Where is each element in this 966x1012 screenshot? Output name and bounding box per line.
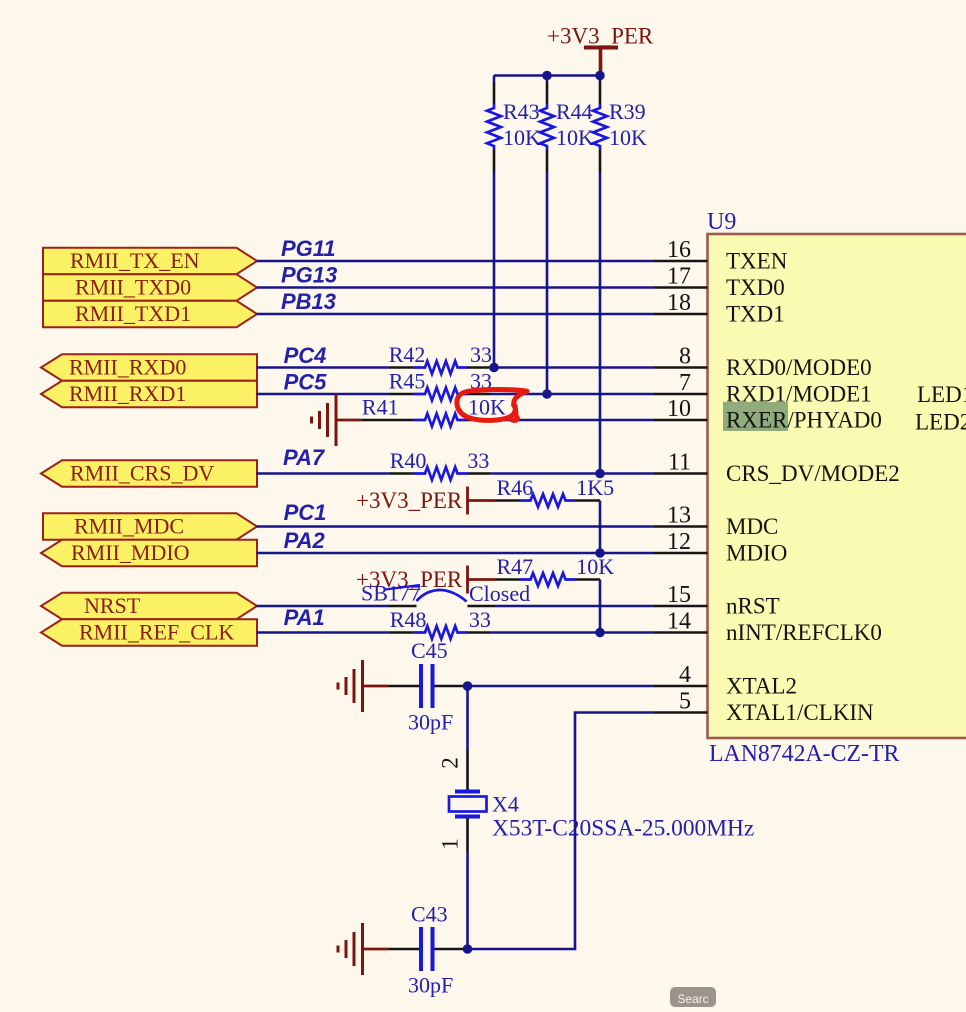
port RMII_TXD1 [43, 301, 257, 328]
svg-text:4: 4 [679, 662, 691, 688]
junction R43/RXD0 [489, 363, 499, 373]
power lead to R46 [468, 499, 496, 502]
svg-text:R44: R44 [556, 99, 593, 124]
wire net PA7 left [257, 472, 391, 475]
resistor R46 (1K5) [519, 494, 575, 507]
svg-text:30pF: 30pF [408, 973, 453, 998]
port RMII_TXD0 [43, 274, 257, 301]
solder bridge SB177 (closed) arc [417, 590, 467, 602]
power symbol +3V3_PER (at R46) [356, 487, 468, 515]
resistor R48 (33) [414, 626, 468, 639]
wire net PB13 (TXD1) [257, 313, 655, 316]
pin 8 RXD0/MODE0 lead [654, 366, 708, 369]
wire NRST to pin 15 [495, 605, 654, 608]
svg-text:2: 2 [437, 757, 462, 769]
port RMII_MDC [43, 513, 257, 540]
junction rail/+3V3_PER stem [595, 71, 605, 81]
wire net PC5 left [257, 393, 391, 396]
R40 left lead [390, 472, 414, 475]
R45 right lead [467, 393, 490, 396]
svg-text:7: 7 [679, 370, 691, 396]
svg-text:15: 15 [667, 582, 691, 608]
pin 13 MDC lead [654, 525, 708, 528]
port RMII_REF_CLK [41, 619, 257, 646]
svg-text:RMII_TXD0: RMII_TXD0 [75, 275, 191, 300]
crystal X4 [455, 792, 480, 817]
R43 bottom lead [493, 150, 496, 172]
R48 right lead [467, 631, 490, 634]
svg-text:17: 17 [667, 264, 691, 290]
svg-text:10K: 10K [468, 395, 506, 420]
svg-text:TXD0: TXD0 [726, 275, 785, 300]
svg-text:Closed: Closed [469, 581, 530, 606]
svg-text:RXD1/MODE1: RXD1/MODE1 [726, 382, 872, 407]
pin 11 CRS_DV/MODE2 lead [654, 472, 708, 475]
pin 18 TXD1 lead [654, 313, 708, 316]
svg-text:nINT/REFCLK0: nINT/REFCLK0 [726, 620, 882, 645]
svg-text:U9: U9 [707, 209, 736, 235]
svg-text:LED2: LED2 [915, 409, 966, 434]
svg-text:10K: 10K [503, 125, 541, 150]
red annotation circle around R41 value 10K [457, 390, 527, 421]
R42 left lead [390, 366, 414, 369]
wire net PA1 left [257, 631, 391, 634]
junction R46/MDIO [595, 548, 605, 558]
pin 15 nRST lead [654, 605, 708, 608]
ground lead to C45 [363, 685, 388, 688]
SB177 left pad [389, 605, 417, 608]
svg-text:PB13: PB13 [281, 289, 336, 314]
wire rail to R44 [546, 76, 549, 83]
power symbol +3V3_PER (top) [547, 24, 654, 76]
svg-text:RMII_REF_CLK: RMII_REF_CLK [79, 620, 234, 645]
pin 10 RXER/PHYAD0 lead [654, 419, 708, 422]
resistor R45 (33) [414, 388, 468, 401]
svg-text:R48: R48 [390, 607, 427, 632]
capacitor C43 30pF [421, 927, 433, 971]
svg-text:RMII_CRS_DV: RMII_CRS_DV [70, 461, 214, 486]
port NRST [41, 593, 257, 620]
svg-text:PC4: PC4 [284, 343, 327, 368]
wire R43 to RXD0 net [493, 172, 496, 368]
svg-text:13: 13 [667, 503, 691, 529]
R47 left lead [495, 578, 519, 581]
svg-text:1: 1 [437, 838, 462, 850]
R47 right lead [575, 578, 600, 581]
svg-text:10K: 10K [576, 554, 614, 579]
svg-text:33: 33 [469, 607, 491, 632]
R43 top lead [493, 82, 496, 104]
R44 bottom lead [546, 150, 549, 172]
wire XTAL1 net (pin5 - down - left to C43) [468, 713, 655, 950]
wire rail to R39 [599, 76, 602, 83]
svg-text:+3V3_PER: +3V3_PER [547, 24, 654, 49]
ground lead to R41 [336, 419, 362, 422]
svg-text:RMII_TXD1: RMII_TXD1 [75, 301, 191, 326]
wire R44 to RXD1 net [546, 172, 549, 394]
svg-text:MDIO: MDIO [726, 541, 787, 566]
wire R39 to CRS_DV net [599, 172, 602, 474]
svg-text:nRST: nRST [726, 594, 780, 619]
svg-text:18: 18 [667, 290, 691, 316]
wire net RXD1 to pin 7 [490, 393, 654, 396]
resistor R42 (33) [414, 361, 468, 374]
wire R41 to pin 10 RXER [490, 419, 654, 422]
svg-text:R41: R41 [362, 395, 399, 420]
R46 right lead [575, 499, 600, 502]
svg-text:PG13: PG13 [281, 263, 337, 288]
svg-text:16: 16 [667, 237, 691, 263]
svg-text:R45: R45 [389, 369, 426, 394]
R39 top lead [599, 82, 602, 104]
ground (C45) [338, 660, 363, 712]
wire XTAL2 down to crystal [466, 686, 469, 750]
resistor R40 (33) [414, 467, 468, 480]
svg-text:8: 8 [679, 344, 691, 370]
svg-text:RXD0/MODE0: RXD0/MODE0 [726, 355, 872, 380]
svg-text:11: 11 [668, 450, 691, 476]
svg-text:RXER/PHYAD0: RXER/PHYAD0 [726, 408, 882, 433]
svg-text:C43: C43 [411, 902, 448, 927]
svg-text:SB177: SB177 [361, 581, 421, 606]
svg-text:R40: R40 [390, 448, 427, 473]
C45 left lead [388, 685, 419, 688]
junction C45/XTAL2 [463, 681, 473, 691]
svg-text:NRST: NRST [84, 593, 141, 618]
R41 right lead [467, 419, 490, 422]
wire net PG11 (TXEN) [257, 260, 655, 263]
svg-text:X4: X4 [492, 792, 519, 817]
gray tooltip button [670, 987, 716, 1007]
C43 right lead [435, 948, 468, 951]
svg-text:TXEN: TXEN [726, 249, 788, 274]
wire net PA2 (MDIO) [257, 552, 655, 555]
R45 left lead [390, 393, 414, 396]
svg-text:12: 12 [667, 529, 691, 555]
svg-text:XTAL2: XTAL2 [726, 674, 797, 699]
svg-text:C45: C45 [411, 638, 448, 663]
wire NRST left [257, 605, 390, 608]
svg-text:1K5: 1K5 [576, 475, 614, 500]
port RMII_RXD1 [41, 381, 257, 408]
R44 top lead [546, 82, 549, 104]
power symbol +3V3_PER (at R47) [356, 566, 468, 594]
strike line over SB177 [385, 585, 420, 590]
R48 left lead [390, 631, 414, 634]
svg-text:10K: 10K [556, 125, 594, 150]
svg-text:PC5: PC5 [284, 370, 328, 395]
R41 left lead [362, 419, 414, 422]
IC U9 LAN8742A body [708, 234, 966, 738]
crystal pin 1 lead [466, 818, 469, 852]
resistor R44 (10K) [540, 104, 554, 150]
svg-text:+3V3_PER: +3V3_PER [356, 488, 463, 513]
port RMII_CRS_DV [41, 460, 257, 487]
svg-text:X53T-C20SSA-25.000MHz: X53T-C20SSA-25.000MHz [492, 816, 754, 842]
ground (R41) [312, 394, 337, 446]
resistor R39 (10K) [593, 104, 607, 150]
svg-text:PA1: PA1 [284, 605, 325, 630]
resistor R47 (10K) [519, 573, 575, 586]
svg-text:RMII_MDIO: RMII_MDIO [71, 540, 190, 565]
wire rail to R43 [493, 76, 496, 83]
wire REF_CLK to pin 14 [490, 631, 654, 634]
svg-text:LED1: LED1 [917, 382, 966, 407]
junction rail/R44 [542, 71, 552, 81]
wire crystal to C43 [466, 852, 469, 949]
svg-text:TXD1: TXD1 [726, 302, 785, 327]
pin 4 XTAL2 lead [654, 685, 708, 688]
svg-text:PG11: PG11 [281, 236, 336, 261]
wire net PG13 (TXD0) [257, 286, 655, 289]
pin 5 XTAL1/CLKIN lead [654, 711, 708, 714]
svg-text:R43: R43 [503, 99, 540, 124]
junction C43/XTAL1 [463, 944, 473, 954]
pin 17 TXD0 lead [654, 286, 708, 289]
svg-text:RMII_MDC: RMII_MDC [74, 514, 184, 539]
svg-text:5: 5 [679, 689, 691, 715]
R46 left lead [495, 499, 519, 502]
svg-text:PC1: PC1 [284, 500, 327, 525]
port RMII_RXD0 [41, 354, 257, 381]
svg-text:R42: R42 [389, 342, 426, 367]
junction R39/CRS_DV [595, 469, 605, 479]
capacitor C45 30pF [421, 664, 433, 708]
wire R47 to nINT net [599, 580, 602, 633]
wire R46 to MDIO net [599, 501, 602, 554]
junction R44/RXD1 [542, 389, 552, 399]
resistor R43 (10K) [487, 104, 501, 150]
port RMII_TX_EN [43, 248, 257, 275]
svg-text:PA2: PA2 [284, 528, 326, 553]
junction R47/nINT [595, 628, 605, 638]
ground lead to C43 [363, 948, 388, 951]
svg-text:R39: R39 [609, 99, 646, 124]
svg-text:14: 14 [667, 609, 691, 635]
pin 16 TXEN lead [654, 260, 708, 263]
svg-text:33: 33 [470, 342, 492, 367]
pin 7 RXD1/MODE1 lead [654, 393, 708, 396]
svg-text:R47: R47 [497, 554, 534, 579]
svg-text:LAN8742A-CZ-TR: LAN8742A-CZ-TR [709, 741, 899, 767]
C45 right lead [435, 685, 468, 688]
svg-text:10: 10 [667, 396, 691, 422]
port RMII_MDIO [41, 540, 257, 567]
svg-text:MDC: MDC [726, 514, 778, 539]
wire CRS_DV to pin 11 [490, 472, 654, 475]
wire net PC1 (MDC) [257, 525, 655, 528]
svg-text:RMII_TX_EN: RMII_TX_EN [70, 248, 200, 273]
wire XTAL2 to pin 4 [468, 685, 655, 688]
svg-text:30pF: 30pF [408, 710, 453, 735]
power lead to R47 [468, 578, 496, 581]
wire net PC4 left [257, 366, 391, 369]
svg-text:CRS_DV/MODE2: CRS_DV/MODE2 [726, 461, 900, 486]
svg-text:RMII_RXD0: RMII_RXD0 [69, 355, 186, 380]
svg-text:RMII_RXD1: RMII_RXD1 [69, 381, 186, 406]
SB177 right pad [467, 605, 495, 608]
svg-text:R46: R46 [497, 475, 534, 500]
ground (C43) [338, 923, 363, 975]
wire net RXD0 to pin 8 [490, 366, 654, 369]
pin 14 nINT/REFCLK0 lead [654, 631, 708, 634]
R39 bottom lead [599, 150, 602, 172]
svg-text:10K: 10K [609, 125, 647, 150]
R42 right lead [467, 366, 490, 369]
C43 left lead [388, 948, 419, 951]
R40 right lead [467, 472, 490, 475]
green highlight on RXER [723, 402, 788, 431]
wire top rail [494, 74, 600, 77]
pin 12 MDIO lead [654, 552, 708, 555]
svg-text:XTAL1/CLKIN: XTAL1/CLKIN [726, 700, 874, 725]
svg-text:33: 33 [467, 448, 489, 473]
crystal pin 2 lead [466, 750, 469, 790]
svg-text:PA7: PA7 [283, 445, 326, 470]
resistor R41 (10K) [414, 414, 468, 427]
